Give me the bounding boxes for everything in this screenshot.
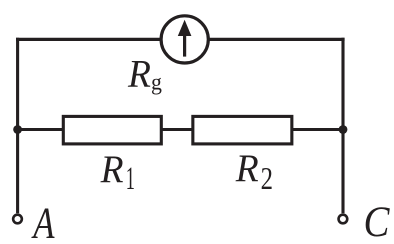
svg-text:R: R	[235, 147, 259, 190]
wire: top branch left segment	[16, 38, 162, 41]
svg-text:A: A	[31, 197, 55, 244]
svg-text:R: R	[100, 148, 124, 191]
junction dot at right node	[339, 125, 348, 134]
wire: middle branch horizontal from node A rail to node C rail	[18, 128, 343, 131]
wire: top branch right segment	[208, 38, 345, 41]
resistor R1 (box)	[63, 116, 161, 143]
wire: right vertical rail (node C)	[341, 38, 344, 213]
svg-text:1: 1	[126, 159, 135, 196]
label R1 (resistor value)	[100, 148, 135, 196]
svg-text:2: 2	[261, 162, 273, 197]
resistor R2 (box)	[193, 116, 292, 143]
svg-text:g: g	[151, 69, 162, 95]
svg-text:R: R	[127, 53, 151, 96]
wire: left vertical rail (node A)	[16, 38, 19, 213]
label R2 (resistor value)	[235, 147, 273, 196]
terminal C (open circle)	[339, 215, 348, 224]
junction dot at left node	[13, 125, 22, 134]
terminal A (open circle)	[13, 215, 22, 224]
galvanometer / meter U1 (circle with arrow)	[161, 16, 208, 63]
label Rg (galvanometer value)	[127, 53, 162, 96]
svg-text:C: C	[364, 197, 390, 244]
